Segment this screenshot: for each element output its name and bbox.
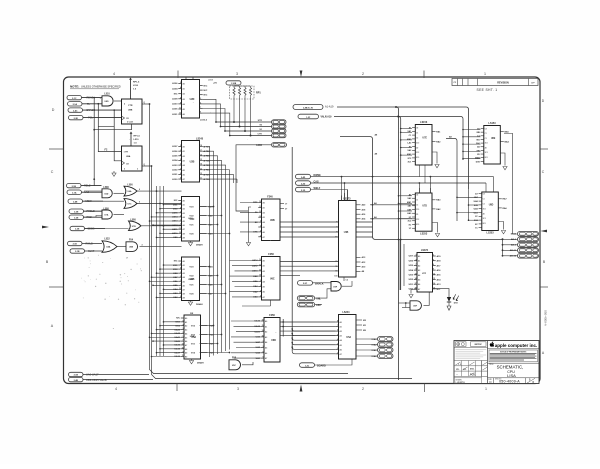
wire taps to U8E inputs <box>462 129 480 160</box>
svg-text:MEW: MEW <box>86 200 93 203</box>
svg-text:A3: A3 <box>340 335 342 338</box>
svg-text:UD2: UD2 <box>409 279 414 281</box>
wire U2B right stubs to TD bus <box>209 183 211 185</box>
svg-text:9: 9 <box>180 178 181 180</box>
svg-text:2-3E: 2-3E <box>74 118 79 120</box>
svg-text:F258: F258 <box>268 253 274 256</box>
svg-text:IOA1: IOA1 <box>372 349 378 352</box>
svg-text:13: 13 <box>179 288 181 290</box>
svg-text:LD08: LD08 <box>172 99 178 101</box>
connector 1-2C VAL/UA19 <box>298 114 332 119</box>
svg-text:U7C: U7C <box>127 204 132 206</box>
svg-text:RELZ: RELZ <box>84 185 91 188</box>
svg-text:F258: F258 <box>269 314 275 317</box>
svg-text:3: 3 <box>180 211 181 213</box>
wire U5A input bundle <box>282 147 335 354</box>
svg-text:A7: A7 <box>183 178 185 181</box>
svg-text:U4B: U4B <box>344 231 349 234</box>
zone ticks right <box>540 149 548 287</box>
svg-text:A7: A7 <box>263 296 265 299</box>
svg-text:AB-0: AB-0 <box>511 238 517 241</box>
wire strobe CTK <box>230 134 272 137</box>
note SEE SHT 1 <box>477 88 498 92</box>
ground below U8E <box>503 167 507 170</box>
wire staircase U2D outputs to strobe lines <box>203 99 231 136</box>
svg-text:DSI: DSI <box>454 303 458 305</box>
svg-text:A0: A0 <box>263 260 265 263</box>
svg-text:2-2D: 2-2D <box>301 183 306 185</box>
svg-text:13: 13 <box>259 270 261 272</box>
svg-text:3: 3 <box>337 343 338 345</box>
svg-text:6: 6 <box>139 202 140 204</box>
svg-text:A6: A6 <box>418 283 420 286</box>
svg-text:CTK: CTK <box>258 134 263 136</box>
svg-text:U7E: U7E <box>422 138 427 140</box>
svg-text:11: 11 <box>262 325 264 327</box>
svg-text:A0: A0 <box>185 317 187 320</box>
svg-text:1: 1 <box>180 220 181 222</box>
svg-text:A7: A7 <box>183 288 185 291</box>
svg-text:U7B: U7B <box>132 226 137 228</box>
svg-text:LS374: LS374 <box>421 249 429 252</box>
connector UNL double oval <box>297 289 331 301</box>
svg-text:4: 4 <box>337 338 338 341</box>
svg-text:D: D <box>489 380 491 384</box>
wire strobe STR <box>216 120 272 123</box>
svg-text:DMAH: DMAH <box>196 303 203 306</box>
svg-text:A3: A3 <box>185 329 187 332</box>
gate U7C OR <box>124 199 182 209</box>
svg-text:2C: 2C <box>475 216 478 218</box>
svg-text:U6D: U6D <box>271 339 276 342</box>
svg-text:L510: L510 <box>104 93 110 95</box>
gate U9F AND <box>331 281 352 291</box>
svg-text:4: 4 <box>142 244 143 247</box>
title SCHEMATIC CPU LISA <box>488 363 540 378</box>
connector LRC double oval <box>297 302 322 307</box>
svg-text:UD1: UD1 <box>409 284 414 286</box>
svg-text:U6D: U6D <box>104 193 109 195</box>
svg-text:A1: A1 <box>263 265 265 268</box>
svg-text:LS253: LS253 <box>420 232 428 235</box>
svg-text:LS153: LS153 <box>420 121 428 124</box>
svg-text:LD04: LD04 <box>172 159 178 162</box>
svg-text:8C: 8C <box>409 224 412 226</box>
svg-text:SEE SHT. 1: SEE SHT. 1 <box>477 88 498 92</box>
svg-text:MB: MB <box>477 132 481 134</box>
svg-text:A2: A2 <box>263 211 265 214</box>
svg-text:LD05: LD05 <box>172 109 178 111</box>
svg-text:A1: A1 <box>418 260 420 263</box>
gate L532 U4A OR <box>102 239 126 253</box>
svg-text:LD01: LD01 <box>172 174 178 176</box>
svg-text:L.WURTH: L.WURTH <box>456 382 466 384</box>
svg-text:3C0: 3C0 <box>483 208 486 210</box>
svg-text:1 FR: 1 FR <box>124 152 129 154</box>
svg-text:3C2: 3C2 <box>483 218 486 220</box>
svg-text:A2: A2 <box>183 268 185 271</box>
svg-text:A7: A7 <box>418 288 420 291</box>
connector 1-4B STR <box>272 120 287 124</box>
connector 1-3A A11B <box>272 143 287 147</box>
gate U8D L510 AND <box>100 93 122 106</box>
svg-text:A1: A1 <box>183 88 185 91</box>
svg-text:C8: C8 <box>485 129 487 131</box>
wire VO taps to TD bus <box>200 206 231 354</box>
svg-text:7: 7 <box>180 168 181 170</box>
svg-text:A6: A6 <box>263 231 265 234</box>
svg-text:N/C: N/C <box>174 93 178 95</box>
svg-text:A1-A19: A1-A19 <box>325 105 334 108</box>
ground below U8D <box>501 231 505 234</box>
svg-text:N/C: N/C <box>174 261 178 263</box>
connector 2-2D CAS <box>296 165 487 200</box>
note unless otherwise specified <box>70 85 121 89</box>
wire A-bus line 2 <box>334 116 463 291</box>
mux U7D LS253 <box>407 188 441 235</box>
svg-text:2: 2 <box>362 72 364 76</box>
mux U6C F258 <box>230 253 339 300</box>
svg-text:A3: A3 <box>263 216 265 219</box>
svg-text:A1: A1 <box>183 150 185 153</box>
svg-text:A6: A6 <box>340 348 342 351</box>
svg-text:D0S: D0S <box>476 161 481 163</box>
svg-text:LD00: LD00 <box>172 179 178 181</box>
zone letters right <box>542 99 546 355</box>
svg-text:11: 11 <box>259 206 261 208</box>
connector 2-1D WELF <box>296 187 348 201</box>
connector 2-1B UA0-UA17 <box>69 372 99 376</box>
svg-text:3C2: 3C2 <box>485 152 488 154</box>
svg-text:3: 3 <box>260 226 261 228</box>
svg-text:2-3E: 2-3E <box>74 211 79 213</box>
svg-text:4: 4 <box>416 258 417 261</box>
svg-text:A2: A2 <box>418 264 420 267</box>
svg-text:4: 4 <box>180 153 181 156</box>
svg-text:15: 15 <box>433 278 435 280</box>
svg-text:L510: L510 <box>134 139 140 141</box>
svg-text:LRC: LRC <box>316 305 321 307</box>
svg-text:apple computer inc.: apple computer inc. <box>495 343 538 348</box>
connector 1-10B near RP1 <box>208 79 241 85</box>
svg-text:C3: C3 <box>485 138 487 140</box>
svg-text:A4: A4 <box>263 280 265 283</box>
svg-text:A2: A2 <box>183 208 185 211</box>
wire A-bus line 1 <box>337 106 469 380</box>
svg-text:2-2C: 2-2C <box>303 283 308 285</box>
svg-text:N/C: N/C <box>437 289 441 291</box>
svg-text:A9: A9 <box>185 352 187 355</box>
svg-text:F240: F240 <box>267 196 273 199</box>
svg-text:A1: A1 <box>265 325 267 328</box>
svg-text:7: 7 <box>183 340 184 342</box>
ground below U7D <box>435 234 439 237</box>
svg-text:A0: A0 <box>183 260 185 263</box>
svg-text:U8E: U8E <box>491 138 496 140</box>
svg-text:SESG: SESG <box>88 228 95 231</box>
svg-text:U8D: U8D <box>105 101 110 103</box>
gate U9F AND to latch enable <box>399 293 430 311</box>
svg-text:6: 6 <box>180 164 181 166</box>
svg-text:A5: A5 <box>263 226 265 229</box>
svg-text:A7: A7 <box>263 236 265 239</box>
zone letters left <box>46 108 55 328</box>
connector 2-1C READ <box>67 95 102 99</box>
svg-text:3: 3 <box>263 346 264 348</box>
svg-text:6: 6 <box>260 296 261 298</box>
svg-text:UD7: UD7 <box>409 256 414 258</box>
connector 2-3E PRELD <box>69 209 104 213</box>
svg-text:10: 10 <box>182 347 184 349</box>
buffer U2D (top) <box>172 80 208 119</box>
svg-text:AB-11: AB-11 <box>510 249 517 252</box>
svg-text:2-4C: 2-4C <box>73 109 78 112</box>
svg-text:2: 2 <box>362 387 364 391</box>
svg-text:12: 12 <box>433 273 435 275</box>
mux U7E LS153 <box>407 121 441 165</box>
svg-text:FOS.: FOS. <box>470 373 476 376</box>
svg-text:LD06: LD06 <box>172 151 178 153</box>
svg-text:A4: A4 <box>183 216 185 219</box>
connector 2-1A TL <box>68 102 103 106</box>
svg-text:A7: A7 <box>265 357 267 360</box>
svg-text:9: 9 <box>183 351 184 353</box>
svg-text:A2: A2 <box>263 270 265 273</box>
wire taps to U8D inputs <box>456 189 478 221</box>
svg-text:A2: A2 <box>185 325 187 328</box>
svg-text:UD3: UD3 <box>409 275 414 277</box>
wire feeder x372 to mid bus <box>340 133 503 239</box>
svg-text:1-10B: 1-10B <box>231 83 237 85</box>
svg-text:9: 9 <box>433 269 434 271</box>
flip-flop U8B <box>93 97 149 186</box>
svg-text:U7A: U7A <box>104 214 109 217</box>
svg-text:A9: A9 <box>183 236 185 239</box>
svg-text:17: 17 <box>415 283 417 285</box>
svg-text:DMAH: DMAH <box>196 244 203 247</box>
ram mux U3C <box>172 197 213 242</box>
svg-text:4: 4 <box>180 206 181 209</box>
data latch U7F LS374 <box>409 249 442 292</box>
svg-text:A7: A7 <box>340 353 342 356</box>
svg-text:A3: A3 <box>265 336 267 339</box>
connector 1-4B S1 <box>272 129 287 133</box>
svg-text:LISA: LISA <box>507 373 516 378</box>
svg-text:2-1C: 2-1C <box>72 98 77 100</box>
svg-text:4: 4 <box>113 72 115 76</box>
svg-text:7: 7 <box>180 284 181 286</box>
svg-text:10: 10 <box>259 201 261 203</box>
gate L508 U7B OR <box>129 219 182 230</box>
svg-text:1: 1 <box>180 280 181 282</box>
svg-text:A3: A3 <box>263 275 265 278</box>
svg-text:8: 8 <box>139 189 140 191</box>
connector 2-1B CLKF <box>70 249 102 253</box>
connector 2-3E SESG <box>70 226 105 230</box>
svg-text:3C2: 3C2 <box>416 152 419 154</box>
svg-text:8C0: 8C0 <box>416 157 419 159</box>
svg-text:N/C: N/C <box>174 200 178 202</box>
connector 2-2C BRACK <box>298 281 332 286</box>
wire U2D top stubs <box>186 78 193 80</box>
svg-text:A4: A4 <box>185 332 187 335</box>
svg-text:A5: A5 <box>183 220 185 223</box>
svg-text:9: 9 <box>200 112 201 114</box>
svg-text:RP1: RP1 <box>256 92 261 95</box>
connector 2-4B UD0-UD15 VALID <box>69 377 107 382</box>
svg-text:8: 8 <box>337 321 338 323</box>
svg-text:U6A: U6A <box>127 190 132 193</box>
svg-text:2-1B: 2-1B <box>75 251 80 253</box>
svg-text:A3: A3 <box>418 269 420 272</box>
svg-text:5: 5 <box>180 159 181 161</box>
svg-text:TITLE: TITLE <box>489 364 493 366</box>
svg-text:A2: A2 <box>183 155 185 158</box>
svg-text:U6C: U6C <box>270 277 275 280</box>
gate L500 U6A OR <box>124 184 182 196</box>
svg-text:A4: A4 <box>183 103 185 106</box>
wire gate feeds from bus <box>84 191 129 229</box>
drawing number 050-4009-A <box>488 378 540 384</box>
connector IOA ovals <box>378 337 394 359</box>
svg-text:UD4: UD4 <box>409 269 414 272</box>
wire vertical bus from U8 flip-flops <box>150 104 413 379</box>
svg-text:2: 2 <box>180 276 181 278</box>
svg-text:U5C: U5C <box>232 365 237 367</box>
svg-text:A0: A0 <box>183 146 185 149</box>
svg-text:A6: A6 <box>265 352 267 355</box>
svg-text:U5B: U5B <box>129 247 134 249</box>
svg-text:11: 11 <box>200 178 202 180</box>
svg-text:A4: A4 <box>418 274 420 277</box>
svg-text:10: 10 <box>259 259 261 261</box>
ground below U8A <box>112 171 116 176</box>
svg-text:5: 5 <box>263 351 264 353</box>
svg-text:REVISION: REVISION <box>497 81 509 84</box>
svg-text:1: 1 <box>183 336 184 338</box>
svg-text:2: 2 <box>180 82 181 84</box>
svg-text:A0: A0 <box>265 320 267 323</box>
svg-text:5: 5 <box>337 334 338 336</box>
svg-text:A6: A6 <box>183 173 185 176</box>
mux U8D LS253 <box>474 192 508 235</box>
ground DMAH below U3A <box>189 359 204 365</box>
svg-text:VAL/UA19: VAL/UA19 <box>321 115 333 118</box>
mux U6D F258 (bottom) <box>231 314 336 362</box>
ram mux U3B <box>173 257 213 301</box>
wire taps to U7E inputs <box>400 128 412 156</box>
svg-text:5: 5 <box>183 320 184 322</box>
svg-text:3C0: 3C0 <box>416 142 419 144</box>
svg-text:A6: A6 <box>263 291 265 294</box>
svg-text:U2D: U2D <box>190 98 195 101</box>
svg-text:5: 5 <box>124 169 125 171</box>
connector 2-2E RSZ <box>69 215 104 219</box>
svg-text:13: 13 <box>200 168 202 170</box>
revision table <box>452 79 538 86</box>
svg-text:9: 9 <box>180 236 181 238</box>
wire U6C to U7F bus <box>400 240 404 290</box>
svg-text:U7F: U7F <box>422 273 427 275</box>
svg-text:LS244: LS244 <box>342 311 350 314</box>
mux U8E LS153 <box>475 122 509 166</box>
pullup RP1-5 to U8B <box>129 78 140 100</box>
svg-text:LD03: LD03 <box>172 104 178 106</box>
svg-text:A7: A7 <box>183 228 185 231</box>
svg-text:050-4009-A: 050-4009-A <box>544 310 548 326</box>
svg-text:8C0: 8C0 <box>483 223 486 225</box>
ground below U7E <box>435 165 439 168</box>
wire feeder x457 <box>446 135 457 221</box>
svg-text:A0: A0 <box>183 200 185 203</box>
svg-text:A1: A1 <box>340 326 342 329</box>
svg-text:5: 5 <box>200 103 201 105</box>
svg-text:A6: A6 <box>183 284 185 287</box>
svg-text:1: 1 <box>485 387 487 391</box>
svg-text:13: 13 <box>415 273 417 275</box>
wire strobe S1 <box>225 129 272 132</box>
svg-text:15: 15 <box>259 216 261 218</box>
svg-text:3: 3 <box>236 72 238 76</box>
svg-text:7: 7 <box>180 224 181 226</box>
wire RP1 drops to strobe lines <box>234 98 251 136</box>
ram mux U3A <box>174 313 214 359</box>
svg-text:IOA3: IOA3 <box>372 338 378 341</box>
svg-text:A3: A3 <box>183 272 185 275</box>
gate F08 U5C AND <box>229 358 253 370</box>
svg-text:2-1A: 2-1A <box>72 191 77 194</box>
svg-text:LD07: LD07 <box>172 146 178 148</box>
svg-text:C1: C1 <box>483 198 485 200</box>
svg-text:11: 11 <box>179 108 181 110</box>
svg-text:18: 18 <box>200 145 202 147</box>
svg-text:13: 13 <box>179 228 181 230</box>
gate F04 U5B AND <box>126 239 182 252</box>
svg-text:2-4E: 2-4E <box>73 200 78 203</box>
svg-text:C8: C8 <box>416 195 418 197</box>
svg-text:ANG.: ANG. <box>470 368 475 371</box>
svg-text:A4: A4 <box>263 221 265 224</box>
svg-text:IOA0: IOA0 <box>372 355 378 358</box>
connector 2-1E RWLD <box>68 241 103 245</box>
svg-text:3: 3 <box>260 285 261 287</box>
resistor pack RP1 (dashed) <box>230 86 262 99</box>
svg-text:6: 6 <box>433 264 434 266</box>
svg-text:14: 14 <box>200 163 202 166</box>
svg-text:4: 4 <box>180 267 181 270</box>
connector 2-4D DWSE <box>296 165 494 200</box>
svg-text:UD6: UD6 <box>409 260 414 262</box>
svg-text:LD02: LD02 <box>172 169 178 171</box>
mux U6B F240 <box>240 196 373 241</box>
svg-text:C2: C2 <box>346 280 348 282</box>
svg-text:8C0: 8C0 <box>416 224 419 226</box>
wire U4B outputs right <box>370 202 415 219</box>
svg-text:2-1B: 2-1B <box>72 186 77 188</box>
svg-text:4: 4 <box>180 86 181 89</box>
title block frame <box>454 341 539 384</box>
wire taps UA bus to ram muxes <box>149 204 181 358</box>
svg-text:9: 9 <box>180 296 181 298</box>
svg-text:+5V: +5V <box>213 83 217 85</box>
svg-text:A0: A0 <box>263 202 265 205</box>
svg-text:13: 13 <box>259 211 261 213</box>
svg-text:A0: A0 <box>183 83 185 86</box>
svg-text:A1: A1 <box>263 206 265 209</box>
svg-text:A4: A4 <box>183 276 185 279</box>
svg-text:NOTE:: NOTE: <box>70 85 79 89</box>
svg-text:2 CLB: 2 CLB <box>127 122 133 124</box>
